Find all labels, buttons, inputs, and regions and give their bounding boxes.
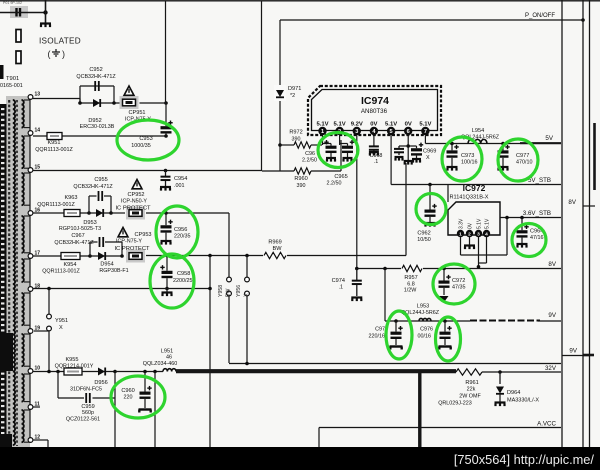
wire bbox=[154, 372, 156, 448]
T901 core laminations bbox=[8, 100, 10, 446]
node bbox=[394, 319, 398, 323]
capacitor C965 electrolytic bbox=[340, 143, 348, 145]
5V rail wire bbox=[425, 143, 520, 145]
svg-text:C976: C976 bbox=[420, 327, 433, 333]
svg-text:Y956: Y956 bbox=[236, 285, 242, 297]
svg-text:QQR1214-001Y: QQR1214-001Y bbox=[55, 364, 94, 370]
resistor K963 bbox=[64, 210, 80, 217]
diode D971 bbox=[274, 85, 286, 101]
capacitor C901 top-left with gray highlight bbox=[10, 6, 28, 18]
wire turn up to IC974 ground rail bbox=[405, 163, 407, 256]
svg-text:C97: C97 bbox=[375, 327, 385, 333]
svg-text:6: 6 bbox=[407, 129, 410, 135]
svg-text:IC PROTECT: IC PROTECT bbox=[115, 206, 151, 212]
svg-text:1: 1 bbox=[321, 129, 324, 135]
svg-text:3.6V_STB: 3.6V_STB bbox=[523, 210, 551, 217]
node bbox=[165, 287, 169, 291]
svg-text:5.1V: 5.1V bbox=[334, 122, 346, 128]
bus wire vertical bbox=[582, 0, 584, 447]
9V cross wire bbox=[562, 355, 590, 357]
node bbox=[164, 211, 168, 215]
capacitor C964 electrolytic bbox=[521, 218, 523, 227]
svg-text:7: 7 bbox=[424, 129, 427, 135]
wire pin4 stub bbox=[373, 135, 375, 145]
diode D954 bbox=[90, 255, 122, 257]
transformer T901 core strip bbox=[6, 96, 30, 448]
T901 pin 17 bbox=[28, 254, 33, 259]
svg-text:K963: K963 bbox=[64, 195, 77, 201]
bus wire vertical right edge bbox=[589, 0, 591, 447]
wire pin1 stub bbox=[322, 135, 324, 145]
node bbox=[245, 362, 249, 366]
resistor R972 bbox=[280, 144, 294, 146]
svg-text:C969: C969 bbox=[423, 149, 436, 155]
wire vertical net bbox=[261, 1, 263, 171]
T901 pin 15 bbox=[28, 168, 33, 173]
svg-text:3: 3 bbox=[355, 129, 358, 135]
wire net row bbox=[229, 363, 561, 365]
ground bbox=[161, 241, 172, 245]
capacitor C953 electrolytic bbox=[165, 103, 167, 126]
ground bbox=[160, 187, 171, 191]
svg-text:C960: C960 bbox=[121, 388, 134, 394]
IC974 pins 1-7 bbox=[318, 127, 326, 135]
wire pin13 row bbox=[33, 98, 80, 100]
T901 pin 13 bbox=[28, 95, 33, 100]
svg-text:560p: 560p bbox=[82, 410, 94, 416]
thick partial bus segment bbox=[593, 123, 596, 190]
svg-text:X: X bbox=[59, 325, 63, 331]
9V row wire bbox=[385, 320, 470, 322]
svg-text:P01 9P-102: P01 9P-102 bbox=[3, 1, 22, 5]
jumper Y958 bbox=[227, 277, 232, 282]
node bbox=[355, 267, 359, 271]
svg-text:R972: R972 bbox=[289, 130, 302, 136]
IC protector CP951 bbox=[120, 96, 139, 109]
diode D952 bbox=[93, 99, 100, 107]
svg-text:3: 3 bbox=[477, 231, 480, 237]
svg-text:100/16: 100/16 bbox=[461, 160, 478, 166]
svg-text:46: 46 bbox=[166, 355, 172, 361]
node bbox=[450, 142, 454, 146]
node bbox=[47, 370, 51, 374]
svg-text:IC PROTECT: IC PROTECT bbox=[114, 246, 150, 252]
svg-text:A.VCC: A.VCC bbox=[537, 421, 556, 428]
svg-text:1000/35: 1000/35 bbox=[131, 143, 151, 149]
wire down to 9V row bbox=[384, 269, 386, 322]
T901 pin 16 bbox=[28, 211, 33, 216]
node bbox=[208, 254, 212, 258]
svg-text:D954: D954 bbox=[100, 262, 113, 268]
svg-text:*2: *2 bbox=[290, 93, 295, 99]
svg-text:C962: C962 bbox=[417, 231, 430, 237]
node bbox=[442, 267, 446, 271]
node bbox=[43, 10, 47, 14]
svg-text:9V: 9V bbox=[569, 348, 577, 355]
wire bbox=[0, 12, 46, 14]
highlight ellipse C953 bbox=[117, 120, 179, 160]
capacitor C977 electrolytic bbox=[502, 144, 504, 151]
wire ground vertical bbox=[209, 256, 211, 448]
node bbox=[581, 18, 585, 22]
svg-text:5.1V: 5.1V bbox=[484, 218, 490, 229]
svg-text:00/16: 00/16 bbox=[418, 334, 432, 340]
highlight ellipse C965 group bbox=[318, 133, 358, 168]
wire to node bbox=[140, 102, 167, 104]
wire pin3 long vertical 9.2V bbox=[356, 135, 358, 269]
svg-text:47/16: 47/16 bbox=[530, 235, 544, 241]
svg-text:C958: C958 bbox=[177, 271, 190, 277]
node bbox=[428, 183, 432, 187]
svg-text:2.2/50: 2.2/50 bbox=[327, 181, 342, 187]
wire pin5 to 5V_STB bbox=[390, 135, 392, 184]
svg-text:RGP30B-F1: RGP30B-F1 bbox=[99, 268, 128, 274]
svg-text:47/35: 47/35 bbox=[452, 285, 466, 291]
capacitor C958 electrolytic bbox=[166, 256, 168, 271]
connector black bar left edge bbox=[0, 104, 7, 447]
svg-text:22k: 22k bbox=[467, 387, 476, 393]
svg-text:R960: R960 bbox=[294, 176, 307, 182]
top border line bbox=[0, 0, 600, 2]
wire D971 vertical bbox=[279, 20, 281, 171]
node bbox=[278, 143, 282, 147]
svg-text:MA3330/L/-X: MA3330/L/-X bbox=[507, 398, 539, 404]
black patch lower left bbox=[0, 333, 13, 371]
svg-text:(: ( bbox=[48, 49, 51, 59]
svg-text:470/10: 470/10 bbox=[516, 160, 533, 166]
svg-text:IC974: IC974 bbox=[361, 95, 389, 107]
node bbox=[505, 216, 509, 220]
inductor L954 bbox=[468, 139, 487, 143]
svg-text:ISOLATED: ISOLATED bbox=[39, 37, 81, 46]
svg-text:0165-001: 0165-001 bbox=[0, 83, 23, 89]
svg-text:.001: .001 bbox=[174, 183, 185, 189]
wire pin14 row bbox=[33, 135, 166, 137]
connector pin rects bbox=[16, 30, 21, 43]
black mark left edge bbox=[0, 65, 4, 79]
T901 pin 12 bbox=[28, 438, 33, 443]
svg-text:8V: 8V bbox=[568, 199, 576, 206]
IC974 hybrid IC outline bbox=[308, 86, 441, 135]
svg-text:P_ON/OFF: P_ON/OFF bbox=[525, 13, 555, 19]
svg-text:QCB32HK-471Z: QCB32HK-471Z bbox=[54, 240, 94, 246]
capacitor C969 bbox=[408, 145, 416, 147]
wire pin11 stub bbox=[33, 406, 40, 408]
8V stub right bbox=[583, 205, 595, 207]
8V rail wire bbox=[357, 268, 561, 270]
svg-text:R1141Q331B-X: R1141Q331B-X bbox=[449, 195, 488, 201]
diode D953 bbox=[89, 212, 111, 214]
ground bbox=[40, 24, 51, 28]
node bbox=[383, 267, 387, 271]
wire bbox=[115, 371, 163, 373]
node bbox=[498, 370, 502, 374]
wire loop bbox=[89, 242, 91, 256]
wire bbox=[114, 372, 116, 448]
svg-text:C956: C956 bbox=[174, 227, 187, 233]
wire bbox=[482, 371, 561, 373]
svg-text:X: X bbox=[426, 155, 430, 161]
jumper Y951 bbox=[48, 289, 50, 315]
svg-text:2: 2 bbox=[468, 231, 471, 237]
IC972 pin1 wire loop to 3.6V_STB bbox=[460, 237, 462, 255]
svg-text:2200/25: 2200/25 bbox=[173, 278, 193, 284]
svg-text:C953: C953 bbox=[139, 136, 152, 142]
svg-text:QCB32HK-471Z: QCB32HK-471Z bbox=[73, 184, 113, 190]
svg-text:2W OMF: 2W OMF bbox=[459, 394, 481, 400]
svg-text:RGP10J-5025-T3: RGP10J-5025-T3 bbox=[59, 226, 101, 232]
svg-text:C955: C955 bbox=[94, 177, 107, 183]
svg-text:L953: L953 bbox=[417, 304, 429, 310]
node bbox=[87, 211, 91, 215]
highlight ellipse C976 bbox=[436, 317, 461, 361]
wire into IC972 bbox=[447, 185, 449, 203]
svg-text:10/50: 10/50 bbox=[417, 237, 431, 243]
svg-text:QRL029J-223: QRL029J-223 bbox=[438, 401, 472, 407]
svg-text:220: 220 bbox=[124, 395, 133, 401]
svg-text:5V_STB: 5V_STB bbox=[528, 177, 551, 184]
node bbox=[443, 319, 447, 323]
T901 pin 19 bbox=[28, 329, 33, 334]
svg-text:CP953: CP953 bbox=[134, 232, 151, 238]
svg-text:31DF6N-FC5: 31DF6N-FC5 bbox=[70, 387, 102, 393]
svg-text:): ) bbox=[62, 49, 65, 59]
svg-text:5.1V: 5.1V bbox=[419, 122, 431, 128]
svg-text:5: 5 bbox=[390, 129, 393, 135]
svg-text:4: 4 bbox=[485, 231, 488, 237]
svg-text:AN80T36: AN80T36 bbox=[361, 108, 388, 115]
T901 pin 11 bbox=[28, 405, 33, 410]
T901 pin 18 bbox=[28, 287, 33, 292]
capacitor C972 electrolytic bbox=[443, 269, 445, 281]
IC972 regulator box bbox=[448, 202, 500, 235]
wire pin2 stub bbox=[339, 135, 341, 145]
svg-text:K955: K955 bbox=[65, 357, 78, 363]
IC protector CP952 bbox=[111, 212, 125, 214]
svg-text:9.2V: 9.2V bbox=[351, 122, 363, 128]
node bbox=[165, 254, 169, 258]
svg-text:CP952: CP952 bbox=[127, 192, 144, 198]
node bbox=[245, 254, 249, 258]
T901 pin 14 bbox=[28, 131, 33, 136]
capacitor C974 bbox=[356, 269, 358, 281]
resistor K951 bbox=[47, 133, 62, 140]
IC protector CP953 bbox=[126, 250, 145, 263]
svg-text:Y958: Y958 bbox=[218, 285, 224, 297]
wire bottom branch bbox=[80, 102, 123, 104]
inductor L951 bbox=[163, 369, 176, 372]
capacitor C966 electrolytic bbox=[323, 143, 332, 145]
wire pin7 to 5V rail bbox=[424, 135, 426, 143]
node bbox=[113, 370, 117, 374]
resistor R961 bbox=[456, 369, 482, 375]
node bbox=[88, 254, 92, 258]
svg-text:K954: K954 bbox=[63, 262, 76, 268]
svg-text:1: 1 bbox=[459, 231, 462, 237]
node bbox=[501, 142, 505, 146]
svg-text:D964: D964 bbox=[507, 390, 520, 396]
svg-text:C974: C974 bbox=[332, 278, 345, 284]
svg-text:2.2/50: 2.2/50 bbox=[302, 158, 317, 164]
capacitor C967 bbox=[100, 237, 104, 247]
thick vertical wire bbox=[418, 372, 421, 447]
capacitor C962 electrolytic bbox=[429, 185, 431, 201]
capacitor C973 electrolytic bbox=[451, 144, 453, 151]
svg-text:5.1V: 5.1V bbox=[316, 122, 328, 128]
capacitor C968 bbox=[373, 144, 375, 147]
svg-text:.1: .1 bbox=[374, 159, 379, 165]
IC972 pins 1-4 bbox=[457, 230, 464, 237]
svg-text:L954: L954 bbox=[472, 128, 484, 134]
svg-text:C965: C965 bbox=[334, 174, 347, 180]
bus wire vertical bbox=[561, 0, 563, 447]
svg-text:8V: 8V bbox=[548, 261, 556, 268]
wire pin17 row bbox=[33, 255, 90, 257]
watermark bar bbox=[0, 447, 600, 470]
node bbox=[120, 254, 124, 258]
node bbox=[164, 101, 168, 105]
svg-text:5.1V: 5.1V bbox=[385, 122, 397, 128]
svg-text:BW: BW bbox=[226, 289, 232, 297]
highlight ellipse C973 bbox=[442, 137, 482, 181]
svg-text:QCB32HK-471Z: QCB32HK-471Z bbox=[76, 74, 116, 80]
capacitor C976 electrolytic bbox=[444, 321, 446, 332]
svg-text:0V: 0V bbox=[405, 122, 412, 128]
svg-text:C973: C973 bbox=[461, 153, 474, 159]
wire pin15 to R960 bbox=[262, 170, 294, 172]
T901 pin rail bbox=[29, 97, 31, 441]
wire pin10 row bbox=[33, 371, 64, 373]
svg-text:0V: 0V bbox=[370, 122, 377, 128]
32V bus thick bbox=[176, 369, 456, 373]
svg-text:15: 15 bbox=[35, 165, 41, 171]
svg-text:32V: 32V bbox=[545, 365, 557, 372]
resistor K955 bbox=[64, 368, 82, 375]
T901 secondary windings bbox=[22, 100, 24, 128]
T901 pin 10 bbox=[28, 369, 33, 374]
highlight ellipse C975 bbox=[386, 311, 412, 359]
svg-text:ERC30-02L3B: ERC30-02L3B bbox=[80, 124, 115, 130]
wire pin12 row bbox=[33, 439, 48, 441]
svg-text:10: 10 bbox=[35, 366, 41, 372]
highlight ellipse C964 bbox=[512, 224, 546, 257]
svg-text:C972: C972 bbox=[452, 278, 465, 284]
highlight ellipse C972 bbox=[433, 264, 475, 304]
node bbox=[56, 370, 60, 374]
svg-text:390: 390 bbox=[297, 183, 306, 189]
svg-text:QQLZ034-460: QQLZ034-460 bbox=[143, 361, 177, 367]
svg-text:R957: R957 bbox=[404, 275, 417, 281]
T901 primary winding bbox=[13, 100, 15, 445]
wire C959 loop bbox=[57, 372, 59, 399]
IC972 pin2 ground bbox=[469, 237, 471, 245]
resistor R957 bbox=[401, 264, 423, 273]
svg-text:C96: C96 bbox=[305, 151, 315, 157]
wire vertical net bbox=[165, 1, 167, 103]
svg-text:3.3V: 3.3V bbox=[458, 218, 464, 229]
inductor L953 bbox=[419, 318, 431, 321]
node bbox=[47, 287, 51, 291]
resistor R960 bbox=[294, 168, 311, 174]
wire pin19 stub bbox=[34, 330, 49, 332]
svg-text:[750x564] http://upic.me/: [750x564] http://upic.me/ bbox=[454, 452, 595, 467]
svg-text:390: 390 bbox=[292, 137, 301, 143]
svg-text:1/2W: 1/2W bbox=[404, 288, 417, 294]
resistor K954 bbox=[61, 253, 80, 260]
svg-text:QQR1113-001Z: QQR1113-001Z bbox=[37, 202, 75, 208]
capacitor C956 electrolytic bbox=[165, 213, 167, 225]
capacitor C952 bbox=[95, 81, 99, 91]
wire bbox=[146, 255, 406, 257]
capacitor C960 electrolytic bbox=[144, 372, 146, 392]
node bbox=[153, 370, 157, 374]
resistor R969 bbox=[263, 251, 287, 260]
node bbox=[78, 101, 82, 105]
highlight ellipse C960 bbox=[111, 376, 165, 418]
highlight ellipse C962 bbox=[416, 194, 446, 225]
svg-text:9V: 9V bbox=[548, 312, 556, 319]
svg-text:T901: T901 bbox=[6, 76, 19, 82]
svg-text:ICP-N75-Y: ICP-N75-Y bbox=[116, 239, 142, 245]
capacitor C975 electrolytic bbox=[395, 321, 397, 332]
A.VCC wire bbox=[319, 427, 561, 429]
capacitor C954 bbox=[165, 171, 167, 177]
diode D964 bbox=[499, 372, 501, 384]
node bbox=[164, 134, 168, 138]
svg-text:14: 14 bbox=[35, 128, 41, 134]
node bbox=[112, 101, 116, 105]
svg-text:BW: BW bbox=[272, 246, 282, 252]
svg-text:QCZ0122-561: QCZ0122-561 bbox=[66, 417, 100, 423]
wire pin6 caps bbox=[407, 135, 409, 160]
node bbox=[109, 211, 113, 215]
svg-text:0V: 0V bbox=[467, 222, 473, 229]
svg-text:C967: C967 bbox=[71, 233, 84, 239]
svg-text:X: X bbox=[244, 293, 250, 297]
node bbox=[520, 216, 524, 220]
svg-text:13: 13 bbox=[35, 92, 41, 98]
svg-text:220/16: 220/16 bbox=[369, 334, 386, 340]
svg-text:C954: C954 bbox=[174, 176, 187, 182]
wire bbox=[146, 212, 229, 214]
wire pin16 branch down bbox=[228, 213, 230, 277]
svg-text:.1: .1 bbox=[339, 285, 344, 291]
highlight ellipse C977 bbox=[498, 139, 538, 181]
IC972 pin4 wire bbox=[486, 237, 488, 263]
highlight ellipse C956 bbox=[156, 206, 198, 258]
wire pin16 row bbox=[33, 212, 89, 214]
node bbox=[164, 169, 168, 173]
node bbox=[143, 370, 147, 374]
svg-text:220/35: 220/35 bbox=[174, 234, 191, 240]
wire pin18 row bbox=[33, 288, 210, 290]
wire loop top bbox=[88, 196, 90, 213]
capacitor C955 bbox=[99, 191, 103, 201]
svg-text:Y951: Y951 bbox=[55, 318, 68, 324]
ground bbox=[166, 289, 168, 293]
3.6V_STB wire bbox=[500, 217, 561, 219]
svg-text:K951: K951 bbox=[47, 140, 60, 146]
wire branch top bbox=[80, 85, 114, 87]
svg-text:C977: C977 bbox=[516, 153, 529, 159]
svg-text:5V: 5V bbox=[545, 135, 553, 142]
diode D956 bbox=[82, 371, 115, 373]
highlight ellipse C958 bbox=[150, 254, 194, 308]
capacitor C970 bbox=[399, 145, 408, 147]
svg-text:D971: D971 bbox=[288, 86, 301, 92]
IC972 pin3 wire to 8V bbox=[478, 237, 480, 267]
svg-text:ICP-N50-Y: ICP-N50-Y bbox=[121, 199, 147, 205]
